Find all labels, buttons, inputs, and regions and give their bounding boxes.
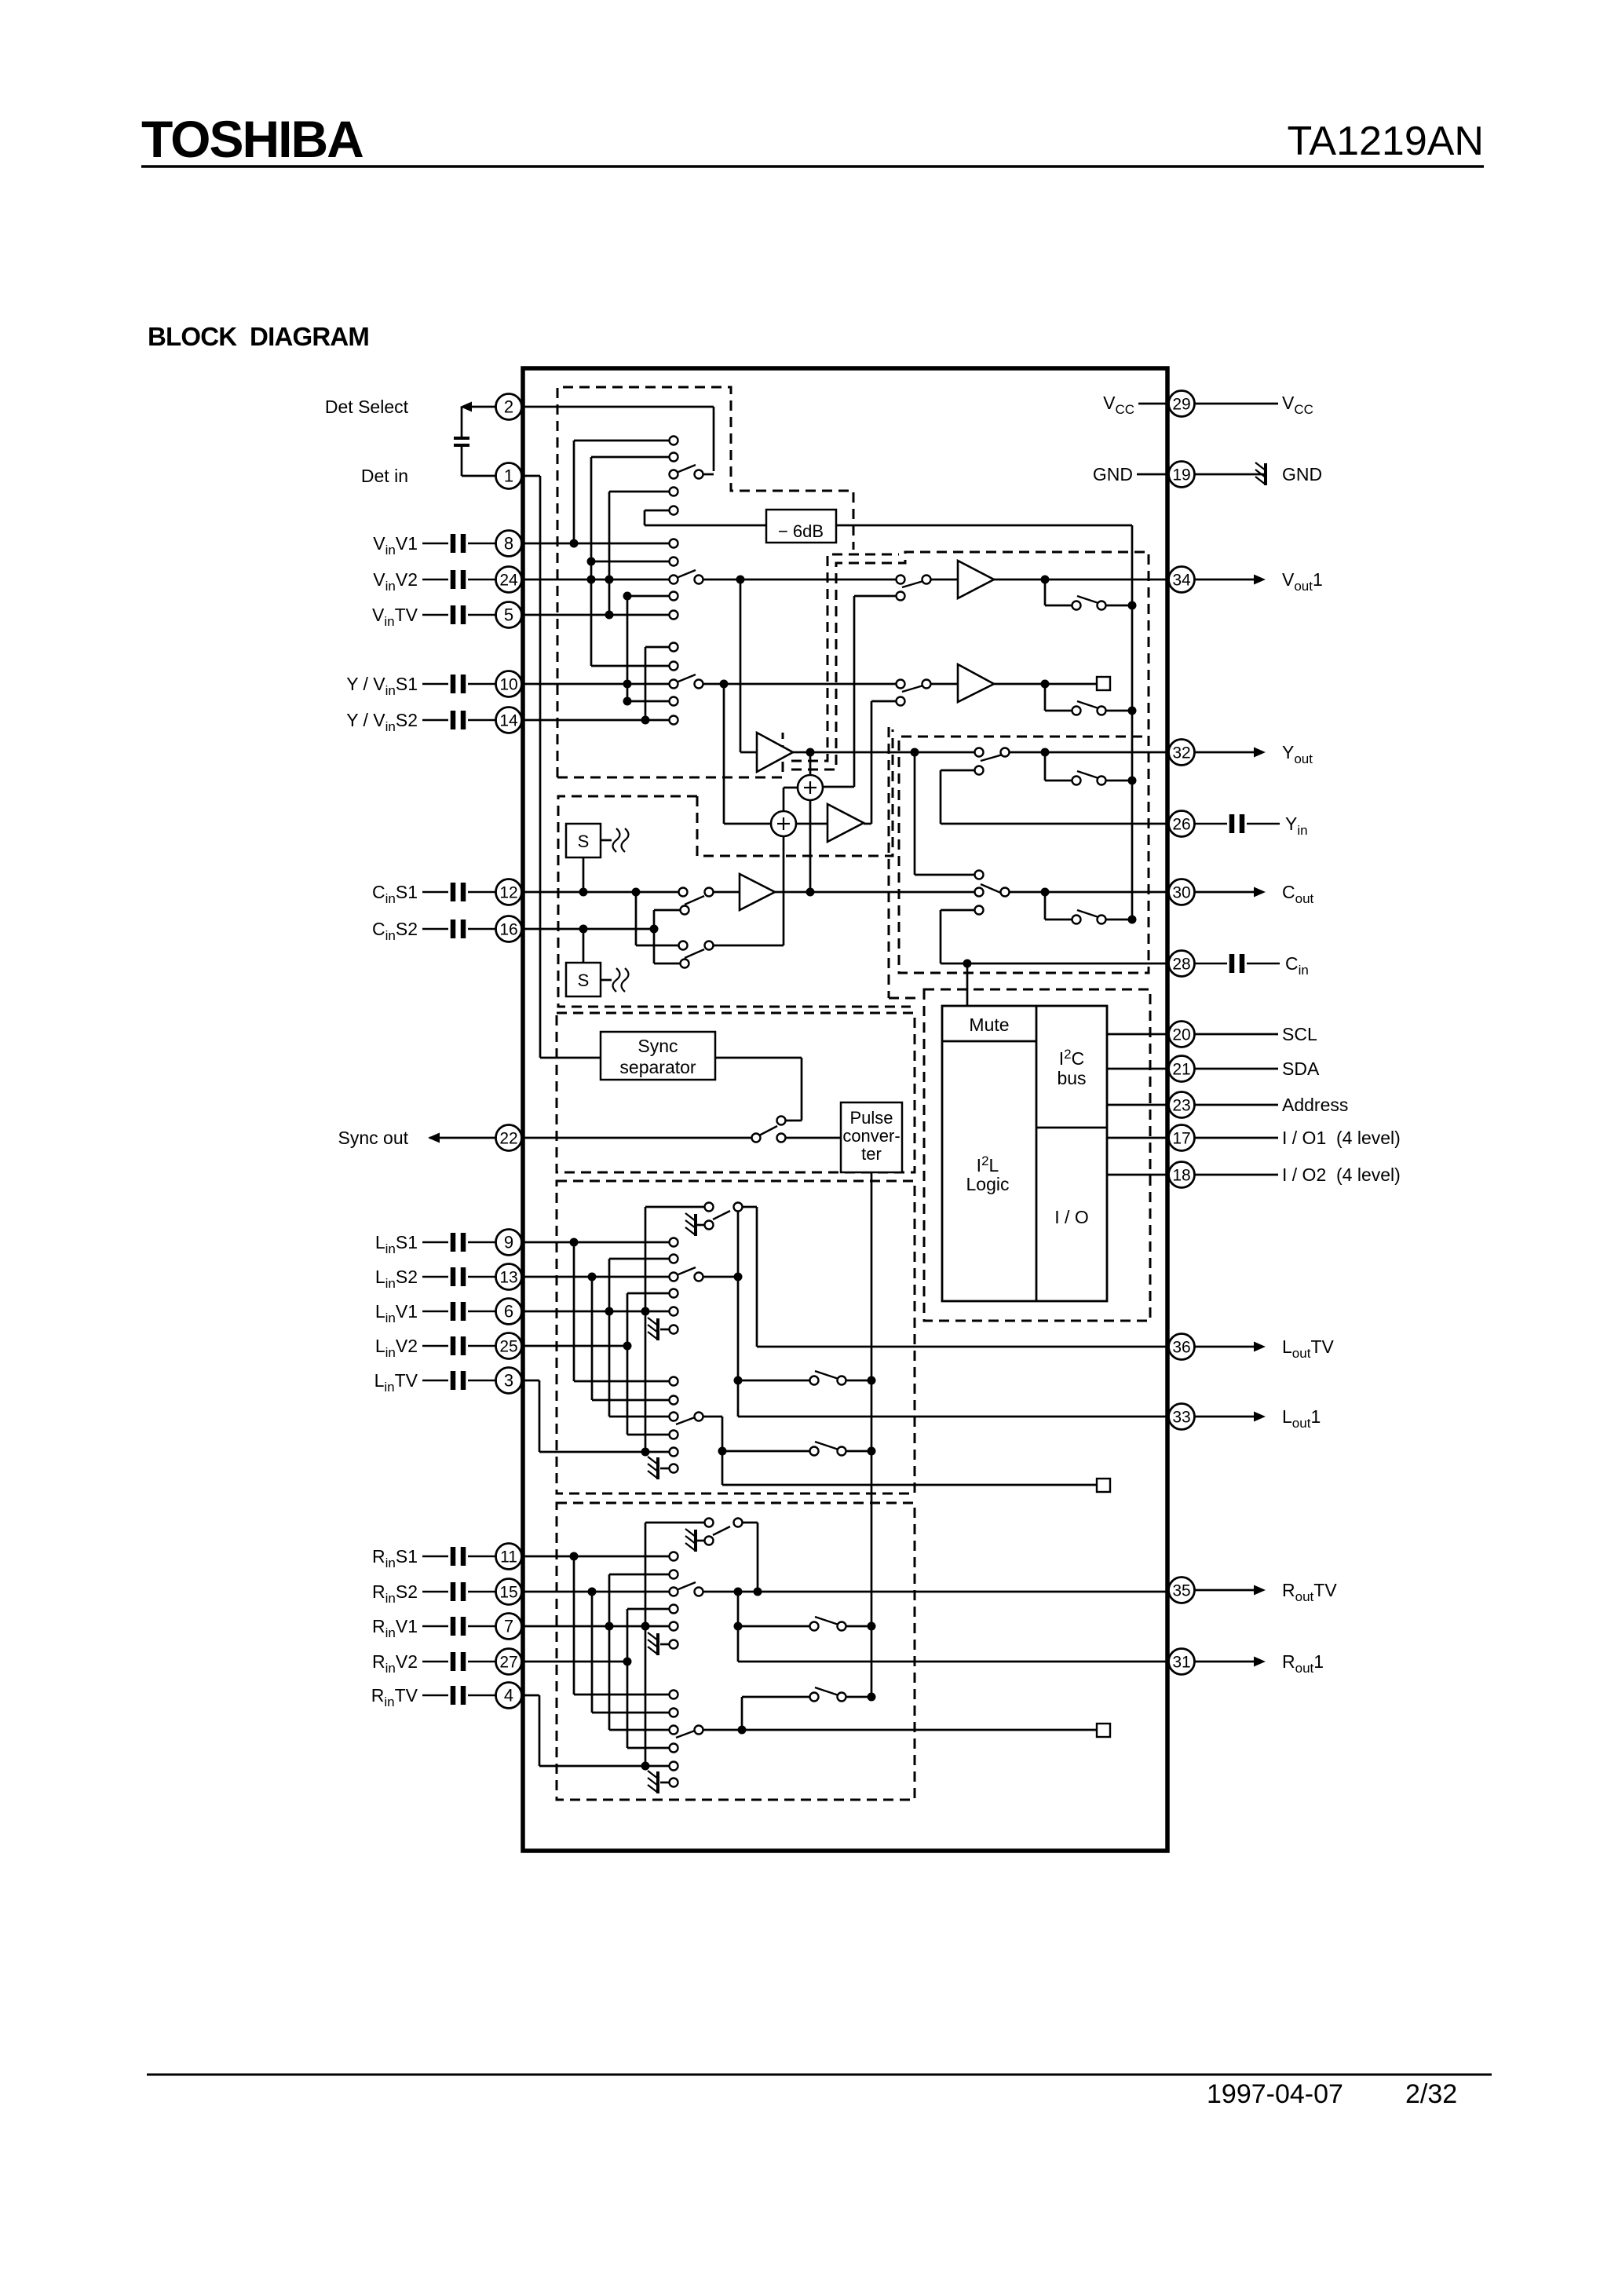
svg-text:S: S [578,971,590,990]
svg-text:36: 36 [1172,1339,1190,1357]
svg-text:2: 2 [504,397,513,417]
svg-text:I / O1 (4 level): I / O1 (4 level) [1282,1128,1401,1148]
svg-text:31: 31 [1172,1654,1190,1672]
svg-text:Sync out: Sync out [338,1128,409,1148]
svg-text:21: 21 [1172,1061,1190,1079]
svg-text:32: 32 [1172,744,1190,762]
svg-text:23: 23 [1172,1097,1190,1115]
svg-text:11: 11 [500,1548,517,1567]
svg-text:2/32: 2/32 [1405,2079,1457,2109]
svg-text:22: 22 [499,1130,517,1148]
svg-text:GND: GND [1093,464,1133,484]
svg-text:Mute: Mute [969,1015,1009,1035]
svg-text:10: 10 [499,676,517,694]
svg-text:Det in: Det in [361,466,408,486]
svg-text:TA1219AN: TA1219AN [1287,119,1484,164]
svg-text:15: 15 [499,1584,517,1602]
svg-text:35: 35 [1172,1582,1190,1600]
svg-text:3: 3 [504,1371,513,1391]
svg-text:28: 28 [1172,956,1190,974]
svg-text:13: 13 [499,1269,517,1287]
svg-text:30: 30 [1172,884,1190,902]
svg-text:S: S [578,832,590,851]
svg-text:I2​C: I2​C [1059,1047,1084,1069]
svg-text:26: 26 [1172,816,1190,834]
svg-text:18: 18 [1172,1167,1190,1185]
svg-text:BLOCK DIAGRAM: BLOCK DIAGRAM [148,322,369,351]
svg-text:Address: Address [1282,1095,1348,1115]
svg-text:29: 29 [1172,396,1190,414]
svg-text:TOSHIBA: TOSHIBA [141,110,363,168]
svg-text:34: 34 [1172,572,1191,590]
svg-text:SCL: SCL [1282,1024,1317,1044]
svg-text:8: 8 [504,534,513,554]
svg-text:conver-: conver- [842,1126,900,1146]
svg-text:GND: GND [1282,464,1322,484]
svg-text:Logic: Logic [966,1174,1010,1194]
svg-text:16: 16 [499,921,517,939]
svg-text:27: 27 [499,1654,517,1672]
svg-text:1997-04-07: 1997-04-07 [1207,2079,1343,2109]
svg-text:Pulse: Pulse [849,1108,893,1128]
svg-text:17: 17 [1172,1130,1190,1148]
svg-text:− 6dB: − 6dB [778,521,824,541]
svg-text:I / O2 (4 level): I / O2 (4 level) [1282,1164,1401,1185]
svg-text:7: 7 [504,1617,513,1636]
svg-text:14: 14 [499,712,518,730]
svg-text:24: 24 [499,572,518,590]
svg-text:25: 25 [499,1338,517,1356]
svg-text:Sync: Sync [637,1036,678,1056]
svg-text:19: 19 [1172,466,1190,484]
svg-text:1: 1 [504,466,513,486]
svg-text:6: 6 [504,1302,513,1322]
svg-text:33: 33 [1172,1409,1190,1427]
svg-text:separator: separator [619,1057,696,1077]
svg-text:5: 5 [504,605,513,625]
svg-text:9: 9 [504,1233,513,1252]
svg-text:SDA: SDA [1282,1058,1320,1079]
svg-text:bus: bus [1057,1068,1086,1088]
svg-text:20: 20 [1172,1026,1190,1044]
svg-text:I / O: I / O [1054,1207,1088,1227]
svg-text:ter: ter [861,1144,882,1164]
svg-text:Det Select: Det Select [325,397,409,417]
svg-text:12: 12 [499,884,517,902]
svg-text:4: 4 [504,1686,513,1706]
